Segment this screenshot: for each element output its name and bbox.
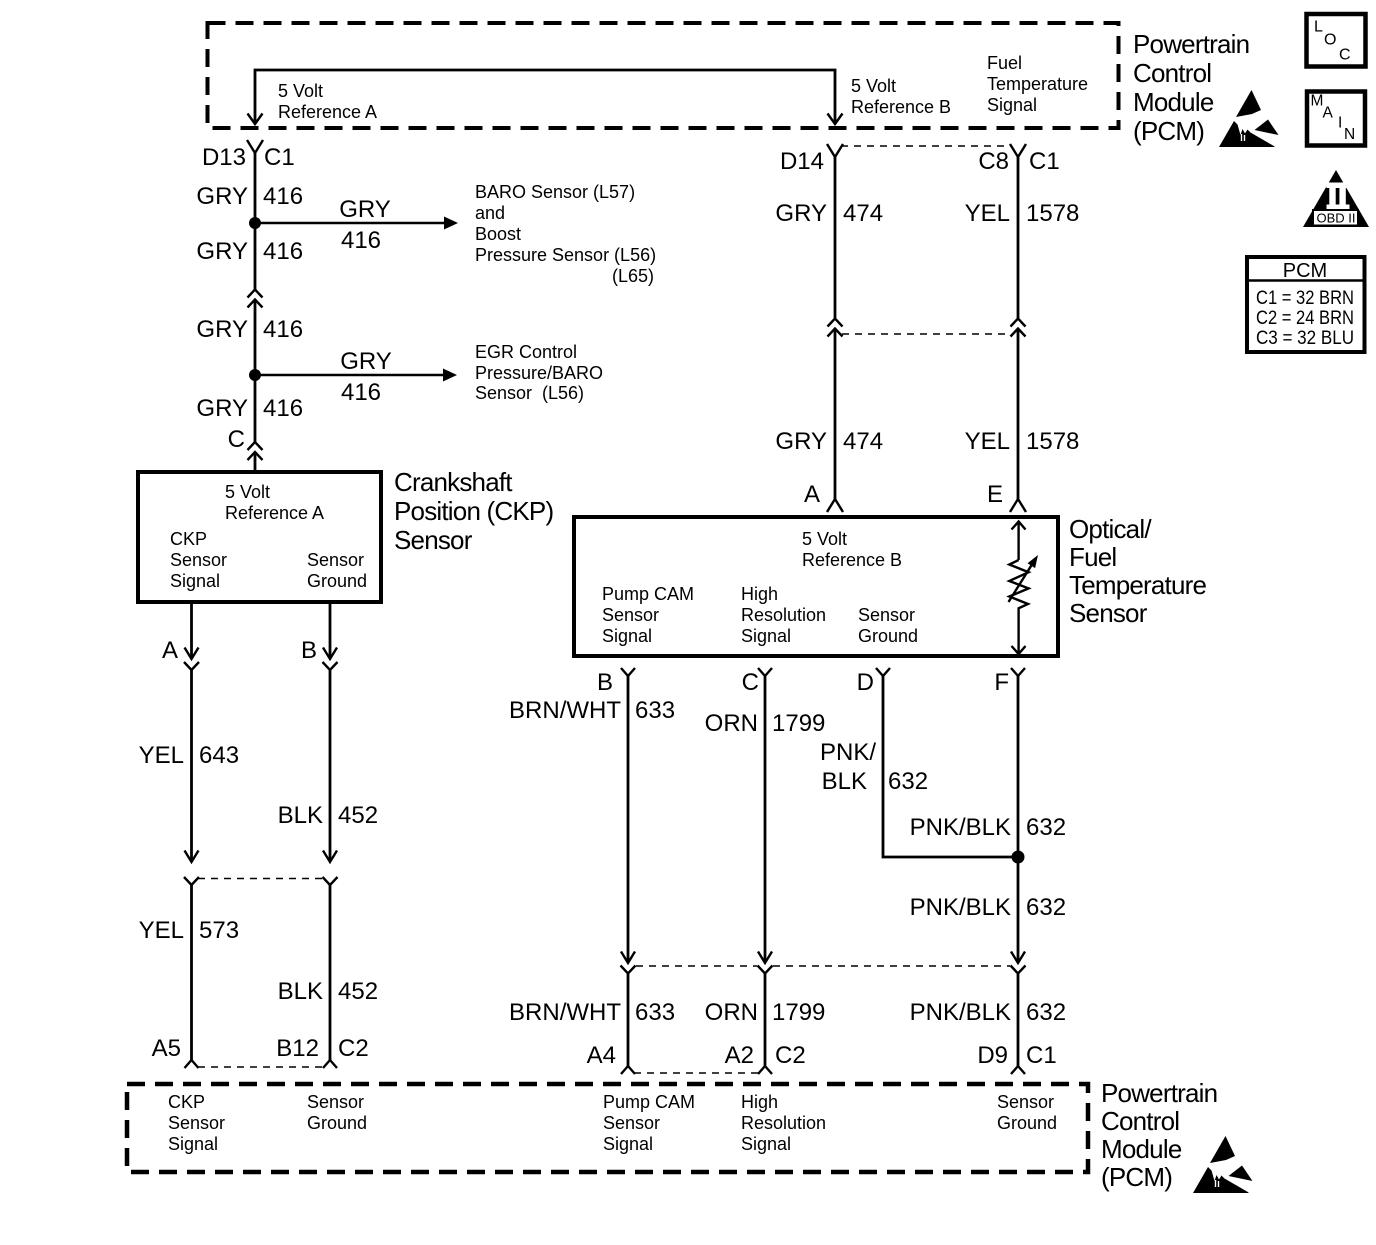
svg-text:Ground: Ground xyxy=(307,571,367,591)
PCM connector legend box xyxy=(1247,257,1365,352)
svg-text:Fuel: Fuel xyxy=(987,53,1022,73)
svg-text:A: A xyxy=(1323,105,1334,122)
svg-text:D14: D14 xyxy=(780,148,824,175)
CKP sensor box xyxy=(138,472,381,602)
svg-text:High: High xyxy=(741,584,778,604)
arrowhead to BARO sensor xyxy=(444,217,458,230)
svg-text:Ground: Ground xyxy=(307,1113,367,1133)
inline connector dashed C1 row xyxy=(841,145,1012,147)
svg-text:Pump CAM: Pump CAM xyxy=(602,584,694,604)
svg-text:O: O xyxy=(1324,32,1336,49)
svg-text:Signal: Signal xyxy=(987,95,1037,115)
label PNK/BLK 632 lower xyxy=(910,999,1066,1026)
label PNK/BLK 632 below junction xyxy=(910,894,1066,921)
arrowhead pin B xyxy=(323,648,337,660)
wire YEL 643 xyxy=(190,669,193,862)
wire BRN/WHT 633 upper xyxy=(627,676,630,963)
svg-text:and: and xyxy=(475,203,505,223)
Optical box pin labels xyxy=(602,529,918,646)
svg-text:Temperature: Temperature xyxy=(987,74,1088,94)
svg-text:YEL: YEL xyxy=(965,428,1010,455)
svg-text:416: 416 xyxy=(263,238,303,265)
label GRY 416 row4 xyxy=(196,395,303,422)
svg-text:Control: Control xyxy=(1101,1106,1179,1136)
Optical/Fuel Temperature Sensor box xyxy=(574,517,1058,656)
wire 5 Volt Reference A/B inside PCM xyxy=(255,70,835,122)
svg-text:E: E xyxy=(987,481,1003,508)
connector fork D14 xyxy=(827,144,843,157)
MAIN box xyxy=(1307,92,1365,146)
svg-text:Sensor: Sensor xyxy=(170,550,227,570)
svg-text:GRY: GRY xyxy=(196,316,248,343)
svg-text:Powertrain: Powertrain xyxy=(1133,29,1249,59)
svg-text:GRY: GRY xyxy=(775,200,827,227)
wire GRY 474 lower xyxy=(834,330,837,499)
svg-text:(PCM): (PCM) xyxy=(1101,1162,1172,1192)
ESD symbol top xyxy=(1219,90,1279,147)
svg-text:416: 416 xyxy=(263,316,303,343)
svg-text:Sensor: Sensor xyxy=(997,1092,1054,1112)
svg-text:M: M xyxy=(1311,93,1324,110)
svg-text:Resolution: Resolution xyxy=(741,605,826,625)
wire PNK/BLK 632 lower xyxy=(1017,972,1020,1066)
svg-text:C1 = 32 BRN: C1 = 32 BRN xyxy=(1256,288,1354,309)
svg-text:643: 643 xyxy=(199,742,239,769)
chevron connector pin A xyxy=(184,662,199,670)
svg-text:BARO Sensor (L57): BARO Sensor (L57) xyxy=(475,182,635,202)
svg-text:632: 632 xyxy=(1026,814,1066,841)
svg-text:A4: A4 xyxy=(587,1042,616,1069)
svg-text:573: 573 xyxy=(199,917,239,944)
svg-text:Pump CAM: Pump CAM xyxy=(603,1092,695,1112)
svg-text:474: 474 xyxy=(843,200,883,227)
svg-text:High: High xyxy=(741,1092,778,1112)
label GRY 474 upper xyxy=(775,200,883,227)
label ORN 1799 upper xyxy=(705,710,826,737)
svg-text:Temperature: Temperature xyxy=(1069,570,1206,600)
label Fuel Temperature Signal xyxy=(987,53,1088,115)
svg-text:Reference A: Reference A xyxy=(278,102,377,122)
wire BRN/WHT 633 lower xyxy=(627,972,630,1066)
wire YEL 1578 upper xyxy=(1017,157,1020,318)
PCM bottom pin labels xyxy=(168,1092,1057,1154)
inline connector dashed row A/B xyxy=(198,878,324,880)
label GRY 416 on BARO branch xyxy=(339,196,391,254)
svg-text:A2: A2 xyxy=(725,1042,754,1069)
svg-text:Resolution: Resolution xyxy=(741,1113,826,1133)
svg-text:C1: C1 xyxy=(1029,148,1060,175)
svg-text:5 Volt: 5 Volt xyxy=(851,76,896,96)
svg-text:5 Volt: 5 Volt xyxy=(802,529,847,549)
svg-text:B: B xyxy=(301,637,317,664)
title Optical/Fuel Temperature Sensor xyxy=(1069,514,1206,628)
arrowhead to EGR sensor xyxy=(443,369,457,382)
svg-text:Module: Module xyxy=(1133,87,1214,117)
svg-text:1578: 1578 xyxy=(1026,200,1079,227)
arrowhead pin A xyxy=(185,648,199,660)
svg-text:F: F xyxy=(994,669,1009,696)
label PNK/ BLK 632 xyxy=(820,739,928,795)
svg-text:Pressure/BARO: Pressure/BARO xyxy=(475,363,603,383)
svg-text:Sensor: Sensor xyxy=(1069,598,1148,628)
svg-text:C2: C2 xyxy=(338,1035,369,1062)
svg-text:Powertrain: Powertrain xyxy=(1101,1078,1217,1108)
svg-text:Sensor: Sensor xyxy=(168,1113,225,1133)
label PNK/BLK 632 above junction xyxy=(910,814,1066,841)
svg-text:Sensor: Sensor xyxy=(394,525,473,555)
fork into PCM A2 xyxy=(758,1066,772,1074)
LOC box xyxy=(1307,14,1366,67)
svg-text:B: B xyxy=(597,669,613,696)
svg-text:PNK/BLK: PNK/BLK xyxy=(910,814,1011,841)
svg-text:Reference B: Reference B xyxy=(802,550,902,570)
inline connector arrowheads row B/C/F xyxy=(621,952,1025,964)
label YEL 573 xyxy=(139,917,239,944)
PCM top dashed box xyxy=(208,23,1119,128)
fork into sensor pin E xyxy=(1010,499,1026,512)
inline connector chevrons row A/B xyxy=(184,877,338,885)
svg-text:GRY: GRY xyxy=(196,183,248,210)
svg-text:GRY: GRY xyxy=(196,395,248,422)
fork into PCM B12 xyxy=(323,1060,337,1068)
inline connector arrowheads row A/B xyxy=(185,851,338,863)
svg-text:D: D xyxy=(857,669,874,696)
inline connector chevrons GRY 474 xyxy=(828,319,843,337)
wire CKP pin B upper xyxy=(329,604,332,659)
svg-text:PCM: PCM xyxy=(1283,260,1327,282)
svg-text:632: 632 xyxy=(1026,999,1066,1026)
wire CKP pin A upper xyxy=(190,604,193,659)
svg-text:GRY: GRY xyxy=(775,428,827,455)
fork into PCM A4 xyxy=(621,1066,635,1074)
svg-text:YEL: YEL xyxy=(965,200,1010,227)
splice junction to EGR xyxy=(249,369,261,381)
wire BLK 452 upper xyxy=(329,669,332,862)
svg-text:Signal: Signal xyxy=(602,626,652,646)
svg-text:Signal: Signal xyxy=(170,571,220,591)
wire into CKP box xyxy=(254,454,257,471)
svg-text:ORN: ORN xyxy=(705,710,758,737)
label 5 Volt Reference A xyxy=(278,81,377,122)
svg-text:A5: A5 xyxy=(152,1035,181,1062)
inline connector dashed row B/C/F xyxy=(636,965,757,967)
svg-text:Control: Control xyxy=(1133,58,1211,88)
svg-text:D13: D13 xyxy=(202,144,246,171)
label EGR Control block xyxy=(475,342,603,403)
fork into PCM A5 xyxy=(185,1060,199,1068)
thermistor element xyxy=(1009,522,1039,655)
label 5 Volt Reference B xyxy=(851,76,951,117)
wire ORN 1799 lower xyxy=(764,972,767,1066)
svg-text:Sensor: Sensor xyxy=(603,1113,660,1133)
svg-text:Fuel: Fuel xyxy=(1069,542,1116,572)
wire PNK/BLK 632 from pin F xyxy=(1017,676,1020,963)
label GRY 416 row3 xyxy=(196,316,303,343)
connector fork D13/C1 xyxy=(247,140,263,153)
svg-text:Sensor: Sensor xyxy=(307,1092,364,1112)
svg-text:C8: C8 xyxy=(978,148,1009,175)
inline connector chevrons YEL 1578 xyxy=(1011,319,1026,337)
wire BLK 452 lower xyxy=(329,884,332,1060)
svg-text:C: C xyxy=(1339,47,1351,64)
splice junction to BARO xyxy=(249,217,261,229)
svg-text:L: L xyxy=(1314,19,1323,36)
wire YEL 1578 lower xyxy=(1017,330,1020,499)
svg-text:Pressure Sensor (L56): Pressure Sensor (L56) xyxy=(475,245,656,265)
svg-text:BRN/WHT: BRN/WHT xyxy=(509,697,621,724)
arrowhead at D13 xyxy=(248,114,263,125)
svg-text:PNK/BLK: PNK/BLK xyxy=(910,894,1011,921)
label YEL 1578 lower xyxy=(965,428,1080,455)
svg-text:5 Volt: 5 Volt xyxy=(278,81,323,101)
label BRN/WHT 633 lower xyxy=(509,999,675,1026)
svg-text:5 Volt: 5 Volt xyxy=(225,482,270,502)
svg-text:633: 633 xyxy=(635,999,675,1026)
label BARO Sensor block xyxy=(475,182,656,286)
label BLK 452 upper xyxy=(278,802,378,829)
fork sensor pin C xyxy=(758,668,772,676)
svg-text:Ground: Ground xyxy=(997,1113,1057,1133)
svg-text:Sensor: Sensor xyxy=(602,605,659,625)
svg-text:1578: 1578 xyxy=(1026,428,1079,455)
svg-text:C: C xyxy=(228,426,245,453)
svg-text:Boost: Boost xyxy=(475,224,521,244)
wire GRY 474 upper xyxy=(834,157,837,318)
svg-text:Signal: Signal xyxy=(603,1134,653,1154)
svg-text:Signal: Signal xyxy=(741,626,791,646)
svg-text:OBD II: OBD II xyxy=(1316,211,1355,226)
fork into PCM D9 xyxy=(1011,1066,1025,1074)
svg-text:416: 416 xyxy=(263,395,303,422)
ESD symbol bottom xyxy=(1193,1136,1253,1193)
svg-text:A: A xyxy=(804,481,820,508)
wire GRY 416 middle segment xyxy=(254,301,257,442)
label GRY 474 lower xyxy=(775,428,883,455)
svg-text:(L65): (L65) xyxy=(612,266,654,286)
svg-text:452: 452 xyxy=(338,802,378,829)
svg-text:Optical/: Optical/ xyxy=(1069,514,1152,544)
svg-text:C2: C2 xyxy=(775,1042,806,1069)
label GRY 416 row1 xyxy=(196,183,303,210)
svg-text:Reference A: Reference A xyxy=(225,503,324,523)
svg-text:1799: 1799 xyxy=(772,710,825,737)
svg-text:Crankshaft: Crankshaft xyxy=(394,467,513,497)
svg-text:633: 633 xyxy=(635,697,675,724)
title Crankshaft Position (CKP) Sensor xyxy=(394,467,553,555)
title Powertrain Control Module (PCM) bottom xyxy=(1101,1078,1217,1192)
chevron connector pin B xyxy=(323,662,338,670)
svg-text:BRN/WHT: BRN/WHT xyxy=(509,999,621,1026)
connector fork C8 xyxy=(1010,144,1026,157)
svg-text:N: N xyxy=(1344,126,1355,143)
fork sensor pin B xyxy=(621,668,635,676)
svg-text:CKP: CKP xyxy=(168,1092,205,1112)
svg-text:632: 632 xyxy=(888,768,928,795)
wire GRY 416 to BARO sensor xyxy=(255,222,445,224)
svg-text:GRY: GRY xyxy=(196,238,248,265)
svg-text:PNK/: PNK/ xyxy=(820,739,876,766)
fork sensor pin F xyxy=(1011,668,1025,676)
svg-text:GRY: GRY xyxy=(339,196,391,223)
inline connector dashed row xyxy=(842,333,1011,335)
svg-text:EGR Control: EGR Control xyxy=(475,342,577,362)
label GRY 416 on EGR branch xyxy=(340,348,392,406)
svg-text:416: 416 xyxy=(263,183,303,210)
OBD II symbol xyxy=(1303,170,1369,227)
wire ORN 1799 upper xyxy=(764,676,767,963)
svg-text:PNK/BLK: PNK/BLK xyxy=(910,999,1011,1026)
svg-text:Sensor (L56): Sensor (L56) xyxy=(475,383,584,403)
svg-text:ORN: ORN xyxy=(705,999,758,1026)
CKP box pin labels xyxy=(170,482,367,591)
label GRY 416 row2 xyxy=(196,238,303,265)
svg-text:C1: C1 xyxy=(264,144,295,171)
svg-text:A: A xyxy=(162,637,178,664)
wire YEL 573 xyxy=(190,884,193,1060)
bottom dashed connector A5-B12 xyxy=(198,1066,324,1068)
title Powertrain Control Module (PCM) top xyxy=(1133,29,1249,146)
connector C chevrons xyxy=(248,442,263,460)
svg-text:Sensor: Sensor xyxy=(858,605,915,625)
svg-text:416: 416 xyxy=(341,379,381,406)
svg-text:(PCM): (PCM) xyxy=(1133,116,1204,146)
svg-text:BLK: BLK xyxy=(278,978,323,1005)
svg-text:416: 416 xyxy=(341,227,381,254)
wire GRY 416 to EGR sensor xyxy=(255,374,444,376)
svg-text:Signal: Signal xyxy=(741,1134,791,1154)
svg-text:C1: C1 xyxy=(1026,1042,1057,1069)
svg-text:D9: D9 xyxy=(977,1042,1008,1069)
wire PNK/BLK 632 from pin D xyxy=(883,676,1018,857)
svg-text:1799: 1799 xyxy=(772,999,825,1026)
svg-text:Position (CKP): Position (CKP) xyxy=(394,496,553,526)
junction dot PNK/BLK xyxy=(1012,851,1025,864)
label ORN 1799 lower xyxy=(705,999,826,1026)
svg-text:632: 632 xyxy=(1026,894,1066,921)
svg-text:C2 = 24 BRN: C2 = 24 BRN xyxy=(1256,308,1354,329)
svg-text:YEL: YEL xyxy=(139,917,184,944)
svg-text:Ground: Ground xyxy=(858,626,918,646)
inline connector chevrons on GRY wire xyxy=(248,290,263,308)
inline connector chevrons row B/C/F xyxy=(621,966,1026,974)
svg-text:C3 = 32 BLU: C3 = 32 BLU xyxy=(1256,328,1354,349)
svg-text:C: C xyxy=(742,669,759,696)
svg-text:GRY: GRY xyxy=(340,348,392,375)
svg-text:BLK: BLK xyxy=(278,802,323,829)
PCM bottom dashed box xyxy=(127,1084,1088,1172)
label BRN/WHT 633 upper xyxy=(509,697,675,724)
label YEL 643 xyxy=(139,742,239,769)
svg-text:474: 474 xyxy=(843,428,883,455)
svg-text:Reference B: Reference B xyxy=(851,97,951,117)
fork sensor pin D xyxy=(876,668,890,676)
label BLK 452 lower xyxy=(278,978,378,1005)
bottom dashed connector A4-A2 xyxy=(634,1072,759,1074)
svg-text:Signal: Signal xyxy=(168,1134,218,1154)
svg-text:B12: B12 xyxy=(276,1035,319,1062)
svg-text:CKP: CKP xyxy=(170,529,207,549)
svg-text:I: I xyxy=(1338,115,1342,132)
svg-text:BLK: BLK xyxy=(822,768,867,795)
wire GRY 416 upper segment xyxy=(254,153,257,290)
svg-text:452: 452 xyxy=(338,978,378,1005)
label YEL 1578 upper xyxy=(965,200,1080,227)
svg-text:Module: Module xyxy=(1101,1134,1182,1164)
svg-text:YEL: YEL xyxy=(139,742,184,769)
svg-text:Sensor: Sensor xyxy=(307,550,364,570)
arrowhead at D14 xyxy=(828,114,843,125)
fork into sensor pin A xyxy=(827,499,843,512)
